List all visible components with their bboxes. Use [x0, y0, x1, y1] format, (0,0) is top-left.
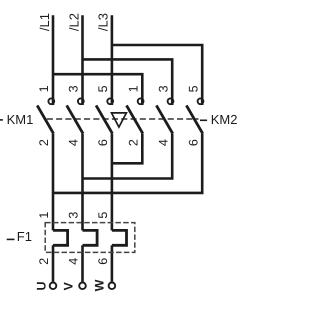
F1 heater element pole2 [83, 230, 98, 245]
svg-text:6: 6 [96, 258, 110, 265]
svg-text:U: U [34, 281, 48, 290]
svg-text:5: 5 [96, 85, 110, 92]
svg-text:KM2: KM2 [211, 112, 238, 127]
svg-text:/L1: /L1 [37, 13, 52, 31]
wire KM2 pole1 crossover to L3 node [112, 134, 142, 164]
svg-text:W: W [93, 279, 107, 291]
svg-text:V: V [62, 281, 76, 290]
wire F1 pole2 output to V [81, 245, 84, 282]
svg-text:4: 4 [156, 139, 170, 146]
svg-text:3: 3 [67, 85, 81, 92]
svg-text:/L3: /L3 [96, 13, 111, 31]
svg-text:1: 1 [37, 212, 51, 219]
svg-text:KM1: KM1 [7, 112, 34, 127]
overload F1 dashed enclosure [45, 223, 135, 253]
KM2 pole3 fixed contact hook [198, 98, 204, 104]
KM1 pole1 blade [37, 105, 53, 133]
wire F1 pole3 output to W [111, 245, 114, 282]
KM1 pole3 blade [96, 105, 112, 133]
dash of KM2 label [200, 119, 207, 121]
KM2 pole2 fixed contact hook [168, 98, 174, 104]
dash of F1 label [7, 238, 15, 240]
svg-text:F1: F1 [17, 229, 32, 244]
svg-text:5: 5 [96, 212, 110, 219]
svg-text:4: 4 [67, 139, 81, 146]
interlock triangle [112, 113, 127, 127]
wire /L1 vertical feed [52, 15, 55, 105]
F1 heater element pole1 [53, 230, 68, 245]
F1 heater element pole3 [112, 230, 127, 245]
svg-text:1: 1 [127, 85, 141, 92]
wire KM1 pole3 lower [111, 134, 114, 231]
svg-text:6: 6 [186, 139, 200, 146]
svg-text:2: 2 [127, 139, 141, 146]
wire branch L3 to KM2 pole3 [112, 45, 202, 105]
dashed mechanical linkage KM1-KM2 [47, 118, 199, 120]
svg-text:5: 5 [186, 85, 200, 92]
KM2 pole3 blade [186, 105, 202, 133]
svg-text:1: 1 [37, 85, 51, 92]
terminal circle V [79, 283, 86, 290]
KM1 pole3 fixed contact hook [107, 98, 113, 104]
dash of KM1 label [0, 119, 3, 121]
svg-text:6: 6 [96, 139, 110, 146]
terminal circle W [109, 283, 116, 290]
wire KM2 pole2 crossover to L2 node [83, 134, 173, 179]
wire branch L2 to KM2 pole2 [83, 59, 173, 105]
KM1 pole2 blade [67, 105, 83, 133]
svg-text:4: 4 [67, 258, 81, 265]
wire /L2 vertical feed [81, 15, 84, 105]
svg-text:3: 3 [156, 85, 170, 92]
KM1 pole1 fixed contact hook [48, 98, 54, 104]
KM2 pole1 blade [127, 105, 143, 133]
svg-text:2: 2 [37, 139, 51, 146]
wire branch L1 to KM2 pole1 [53, 74, 142, 105]
wire F1 pole1 output to U [52, 245, 55, 282]
KM2 pole2 blade [156, 105, 172, 133]
svg-text:/L2: /L2 [66, 13, 81, 31]
KM1 pole2 fixed contact hook [78, 98, 84, 104]
wire /L3 vertical feed [111, 15, 114, 105]
wire KM1 pole2 lower [81, 134, 84, 231]
KM2 pole1 fixed contact hook [138, 98, 144, 104]
terminal circle U [50, 283, 57, 290]
svg-text:3: 3 [67, 212, 81, 219]
svg-text:2: 2 [37, 258, 51, 265]
wire KM2 pole3 crossover to L1 node [53, 134, 202, 193]
wire KM1 pole1 lower [52, 134, 55, 231]
